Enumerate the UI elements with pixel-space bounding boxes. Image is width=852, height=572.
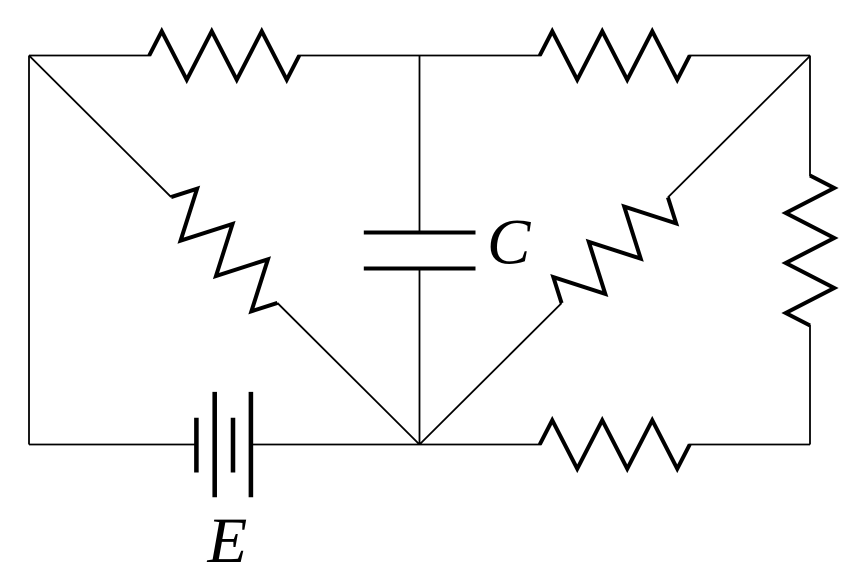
resistor R2 (top right horizontal) (540, 31, 690, 80)
wire right edge, upper segment (top-right corner to R3) (809, 56, 811, 177)
wire left edge (top-left corner to bottom-left corner) (28, 56, 30, 445)
resistor R3 (right edge vertical) (786, 176, 835, 326)
wire right edge, lower segment (R3 to bottom-right corner) (809, 325, 811, 445)
wire middle vertical, upper segment (top edge to capacitor) (419, 56, 421, 232)
wire middle vertical, lower segment (capacitor to centre node) (419, 270, 421, 445)
wire top edge, middle segment (R1 to R2 through centre node) (298, 55, 541, 57)
wire bottom edge, left segment (bottom-left corner to battery) (29, 444, 196, 446)
capacitor C (364, 233, 476, 269)
resistor R1 (top left horizontal) (149, 31, 299, 80)
wire bottom edge, right segment (bottom-right corner to R4) (689, 444, 810, 446)
svg-text:E: E (207, 505, 248, 572)
wire bottom edge, segment from centre node to R4 (420, 444, 542, 446)
wire top edge, left segment (top-left corner to resistor) (29, 55, 151, 57)
wire bottom edge, segment from battery to centre node (251, 444, 420, 446)
resistor R4 (bottom horizontal) (540, 420, 690, 469)
resistor R6 (right diagonal) (420, 56, 811, 445)
resistor R5 (left diagonal) (29, 56, 420, 445)
svg-text:C: C (487, 207, 531, 279)
wire top edge, right segment (R2 to top-right corner) (689, 55, 810, 57)
battery E (196, 392, 251, 497)
